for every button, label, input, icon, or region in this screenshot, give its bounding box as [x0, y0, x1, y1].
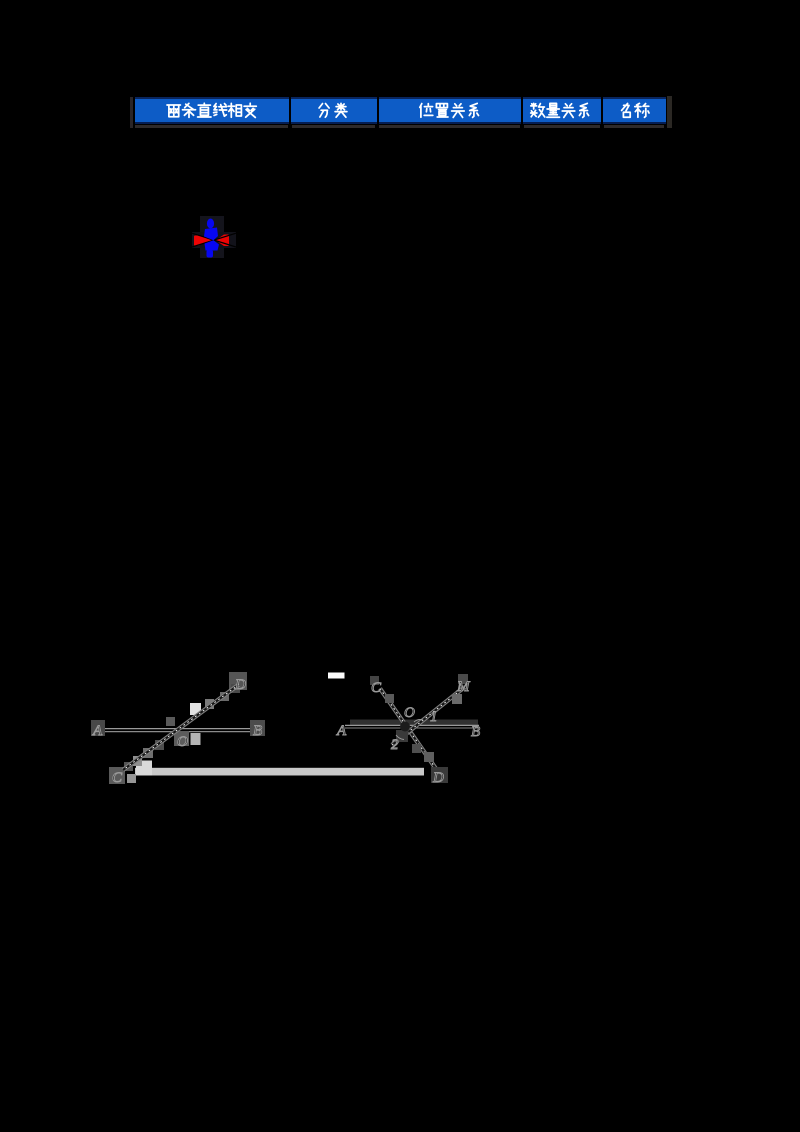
header text 两条直线相交 分类 位置关系 数量关系 名称 (drawn as strokes) — [130, 94, 675, 130]
fig2 line M through O — [392, 687, 465, 745]
center blob and arcs — [400, 722, 410, 732]
fig1 labels — [92, 677, 262, 786]
svg-text:O: O — [177, 734, 188, 750]
分类 — [319, 104, 329, 118]
fig2 labels — [336, 679, 480, 786]
jpeg blocks fig2 — [370, 674, 468, 783]
数量关系 — [531, 103, 545, 117]
svg-text:C: C — [371, 680, 382, 696]
fig2 line CD — [380, 689, 441, 777]
位置关系 — [420, 104, 433, 118]
header cell 5 名称 — [603, 97, 666, 124]
名称 — [622, 103, 631, 117]
svg-text:D: D — [432, 770, 444, 786]
white dash — [328, 673, 345, 679]
两条直线相交 — [167, 105, 180, 117]
fig1 line AB — [104, 728, 262, 730]
svg-text:2: 2 — [391, 737, 399, 753]
icon black X lines — [192, 233, 236, 247]
svg-text:A: A — [336, 723, 347, 739]
svg-text:O: O — [404, 705, 415, 721]
icon: crossed lines clipart — [190, 210, 238, 262]
svg-text:A: A — [92, 723, 103, 739]
svg-text:B: B — [471, 724, 480, 740]
svg-text:M: M — [456, 679, 471, 695]
table left border — [130, 97, 133, 128]
icon dark cross background — [200, 216, 224, 258]
header cell 4 数量关系 — [523, 97, 601, 124]
header cell 2 分类 — [291, 97, 377, 124]
figure 1 — [91, 672, 265, 786]
icon red horizontal arrow-line — [194, 235, 229, 247]
svg-text:C: C — [112, 770, 123, 786]
header cell 3 位置关系 — [379, 97, 522, 124]
row2 top border strip — [135, 125, 664, 128]
svg-text:B: B — [253, 723, 262, 739]
table header row — [0, 0, 800, 140]
fig2 line AB — [345, 724, 479, 726]
fig1 line CD with jpeg blocks — [124, 684, 240, 771]
fig1 letter backing blocks — [91, 672, 265, 784]
figure 2 — [328, 673, 480, 787]
header cell 1 两条直线相交 — [135, 97, 289, 124]
svg-text:D: D — [234, 677, 246, 693]
svg-text:1: 1 — [430, 709, 438, 725]
geometry figures — [80, 660, 500, 792]
light gray underline bar — [135, 768, 424, 776]
icon blue vertical arrow-line — [204, 219, 219, 258]
dark band above AB — [350, 720, 478, 726]
table right border — [667, 96, 672, 128]
